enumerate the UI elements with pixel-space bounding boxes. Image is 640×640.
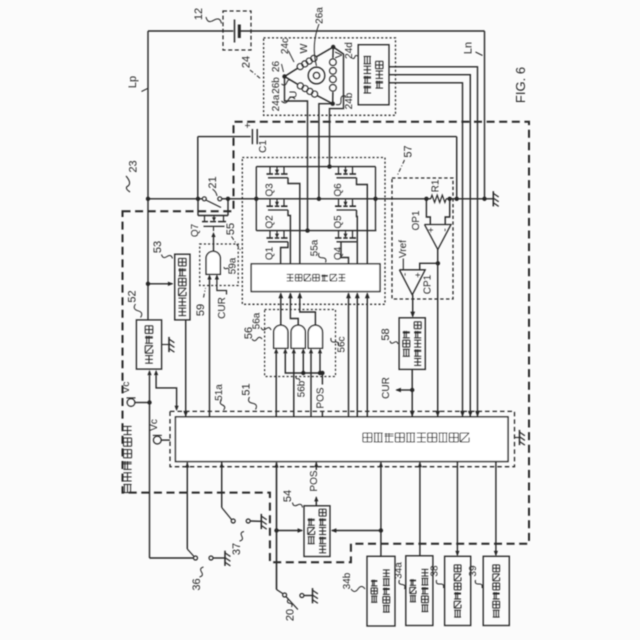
svg-text:53: 53 xyxy=(152,241,164,253)
svg-text:Q5: Q5 xyxy=(333,215,344,229)
svg-text:24a: 24a xyxy=(271,94,282,111)
svg-text:+: + xyxy=(426,227,436,232)
svg-text:Q1: Q1 xyxy=(265,246,276,260)
svg-text:24c: 24c xyxy=(280,38,291,54)
svg-text:51: 51 xyxy=(241,383,253,395)
svg-text:-: - xyxy=(440,228,451,231)
svg-text:Vc: Vc xyxy=(149,419,160,431)
svg-text:26a: 26a xyxy=(315,7,326,24)
svg-text:OP1: OP1 xyxy=(411,210,422,230)
svg-text:54: 54 xyxy=(282,490,294,502)
svg-text:Vc: Vc xyxy=(121,382,132,394)
svg-text:POS: POS xyxy=(315,387,326,408)
svg-text:39: 39 xyxy=(468,565,479,577)
svg-text:24d: 24d xyxy=(344,42,355,59)
svg-text:Q3: Q3 xyxy=(265,183,276,197)
svg-text:57: 57 xyxy=(403,145,415,157)
svg-text:Lp: Lp xyxy=(127,76,139,88)
svg-text:59: 59 xyxy=(195,304,207,316)
svg-text:59a: 59a xyxy=(228,257,239,274)
svg-text:23: 23 xyxy=(128,160,140,172)
svg-text:C1: C1 xyxy=(258,140,269,153)
svg-text:CUR: CUR xyxy=(217,297,228,319)
svg-text:58: 58 xyxy=(380,328,392,340)
svg-text:24b: 24b xyxy=(344,92,355,109)
svg-text:Vref: Vref xyxy=(398,240,409,258)
svg-text:R1: R1 xyxy=(431,179,442,192)
svg-text:+: + xyxy=(243,122,254,128)
svg-text:56a: 56a xyxy=(252,312,263,329)
svg-text:POS: POS xyxy=(309,470,320,491)
svg-text:Q2: Q2 xyxy=(265,215,276,229)
svg-text:37: 37 xyxy=(231,543,243,555)
svg-text:12: 12 xyxy=(193,8,205,20)
svg-text:CUR: CUR xyxy=(381,377,392,399)
svg-text:Q7: Q7 xyxy=(190,223,201,237)
svg-text:W: W xyxy=(298,43,310,53)
svg-text:Ln: Ln xyxy=(463,42,475,54)
svg-text:55: 55 xyxy=(225,223,237,235)
svg-text:38: 38 xyxy=(430,565,441,577)
svg-text:FIG. 6: FIG. 6 xyxy=(513,67,528,103)
svg-text:Q6: Q6 xyxy=(333,183,344,197)
svg-text:56b: 56b xyxy=(297,380,308,397)
svg-text:U: U xyxy=(288,91,300,99)
svg-text:34a: 34a xyxy=(393,562,404,579)
svg-text:26: 26 xyxy=(271,61,282,73)
svg-text:20: 20 xyxy=(285,609,297,621)
svg-text:36: 36 xyxy=(191,578,203,590)
svg-text:34b: 34b xyxy=(342,572,353,589)
svg-text:-: - xyxy=(400,273,411,276)
svg-text:CP1: CP1 xyxy=(423,274,434,294)
svg-text:21: 21 xyxy=(207,176,219,188)
svg-text:24: 24 xyxy=(241,56,253,68)
svg-text:52: 52 xyxy=(127,290,139,302)
svg-text:51a: 51a xyxy=(214,384,225,401)
svg-text:26b: 26b xyxy=(271,77,282,94)
